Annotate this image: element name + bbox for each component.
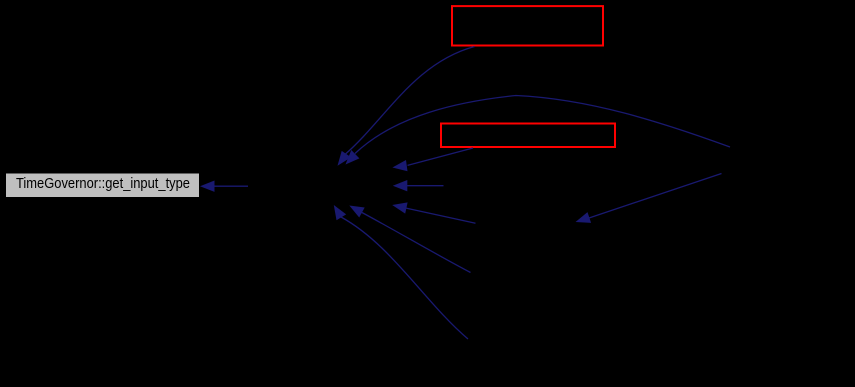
node box: red truncated caller node 2 (middle) xyxy=(441,124,615,148)
edge E7: hidden node E -> center node A xyxy=(349,206,470,273)
edge E8: hidden node F -> center node A (curved) xyxy=(334,205,468,339)
edge E5: hidden node D -> center node A (horizontal) xyxy=(393,180,444,191)
node box: red truncated caller node 1 (top) xyxy=(452,6,603,45)
edge E9: far-right node B -> hidden node C xyxy=(576,174,722,223)
edge E3: far-right node B -> center node A (large arc) xyxy=(346,96,731,165)
edge E4: red node 2 -> center node A xyxy=(392,148,473,171)
edge E6: hidden node C -> center node A xyxy=(392,202,475,223)
node box: TimeGovernor::get_input_type (current node, grey fill) xyxy=(6,174,199,198)
svg-text:TimeGovernor::get_input_type: TimeGovernor::get_input_type xyxy=(16,176,190,192)
edge E2: red node 1 -> center node A (curved) xyxy=(338,47,475,166)
edge E1: center node A -> TimeGovernor::get_input_type xyxy=(200,181,248,192)
